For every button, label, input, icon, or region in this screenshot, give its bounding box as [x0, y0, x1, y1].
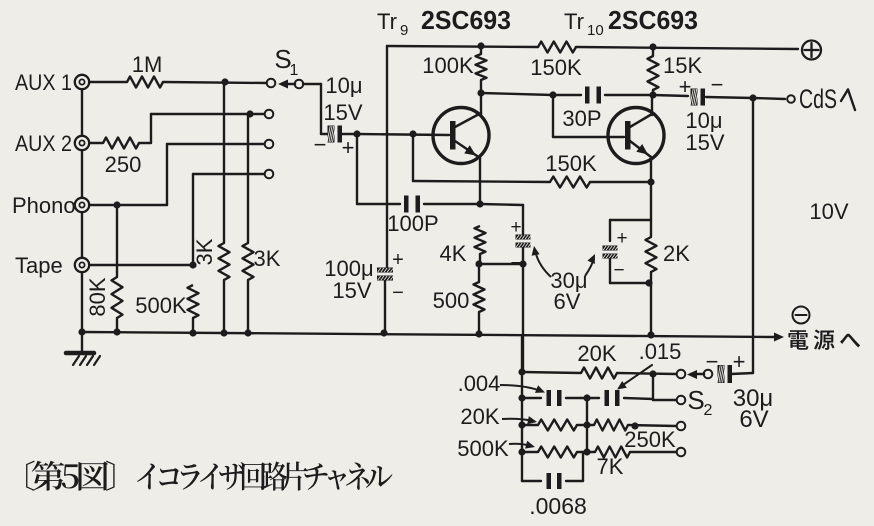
- svg-text:7K: 7K: [597, 454, 624, 479]
- svg-text:1: 1: [290, 62, 299, 79]
- svg-text:30P: 30P: [562, 106, 601, 131]
- svg-text:150K: 150K: [545, 151, 597, 176]
- svg-text:−: −: [314, 132, 327, 157]
- svg-text:CdS: CdS: [799, 84, 837, 114]
- svg-text:9: 9: [400, 22, 408, 39]
- svg-text:15V: 15V: [332, 278, 371, 303]
- svg-text:+: +: [342, 135, 355, 160]
- svg-text:10μ: 10μ: [325, 73, 362, 98]
- svg-text:10: 10: [587, 22, 604, 39]
- svg-text:1M: 1M: [132, 52, 163, 77]
- svg-text:−: −: [711, 72, 724, 97]
- svg-text:500K: 500K: [135, 293, 187, 318]
- svg-text:S: S: [687, 385, 704, 415]
- svg-text:AUX 2: AUX 2: [15, 131, 72, 156]
- svg-text:Tr: Tr: [564, 9, 584, 34]
- svg-text:−: −: [510, 253, 521, 274]
- svg-text:15V: 15V: [685, 130, 724, 155]
- svg-text:3K: 3K: [192, 238, 217, 265]
- svg-text:Tr: Tr: [377, 9, 397, 34]
- svg-text:.0068: .0068: [529, 493, 587, 519]
- svg-text:20K: 20K: [460, 404, 499, 429]
- svg-text:+: +: [733, 349, 746, 374]
- svg-text:2K: 2K: [663, 241, 690, 266]
- svg-text:3K: 3K: [254, 246, 281, 271]
- svg-text:80K: 80K: [85, 277, 110, 316]
- svg-text:6V: 6V: [554, 289, 581, 314]
- svg-text:2SC693: 2SC693: [421, 5, 511, 35]
- svg-text:4K: 4K: [440, 241, 467, 266]
- svg-text:+: +: [679, 74, 692, 99]
- svg-text:.004: .004: [458, 371, 501, 396]
- svg-text:AUX 1: AUX 1: [15, 70, 72, 95]
- svg-text:Tape: Tape: [15, 253, 63, 278]
- svg-text:15V: 15V: [323, 100, 362, 125]
- svg-text:100K: 100K: [422, 53, 474, 78]
- svg-text:100P: 100P: [387, 211, 438, 236]
- svg-text:+: +: [616, 228, 627, 249]
- svg-text:2SC693: 2SC693: [608, 5, 698, 35]
- svg-text:−: −: [392, 282, 404, 304]
- svg-text:500: 500: [433, 288, 470, 313]
- svg-text:20K: 20K: [577, 341, 616, 366]
- svg-text:−: −: [613, 260, 624, 281]
- svg-text:250K: 250K: [624, 427, 676, 452]
- svg-text:150K: 150K: [530, 55, 582, 80]
- svg-text:+: +: [392, 249, 404, 271]
- svg-text:+: +: [510, 217, 521, 238]
- svg-text:250: 250: [105, 152, 142, 177]
- svg-text:2: 2: [704, 402, 713, 419]
- svg-text:500K: 500K: [457, 436, 509, 461]
- svg-text:Phono: Phono: [12, 193, 76, 218]
- svg-text:6V: 6V: [739, 406, 768, 433]
- svg-text:.015: .015: [639, 339, 682, 364]
- svg-text:10V: 10V: [809, 199, 848, 224]
